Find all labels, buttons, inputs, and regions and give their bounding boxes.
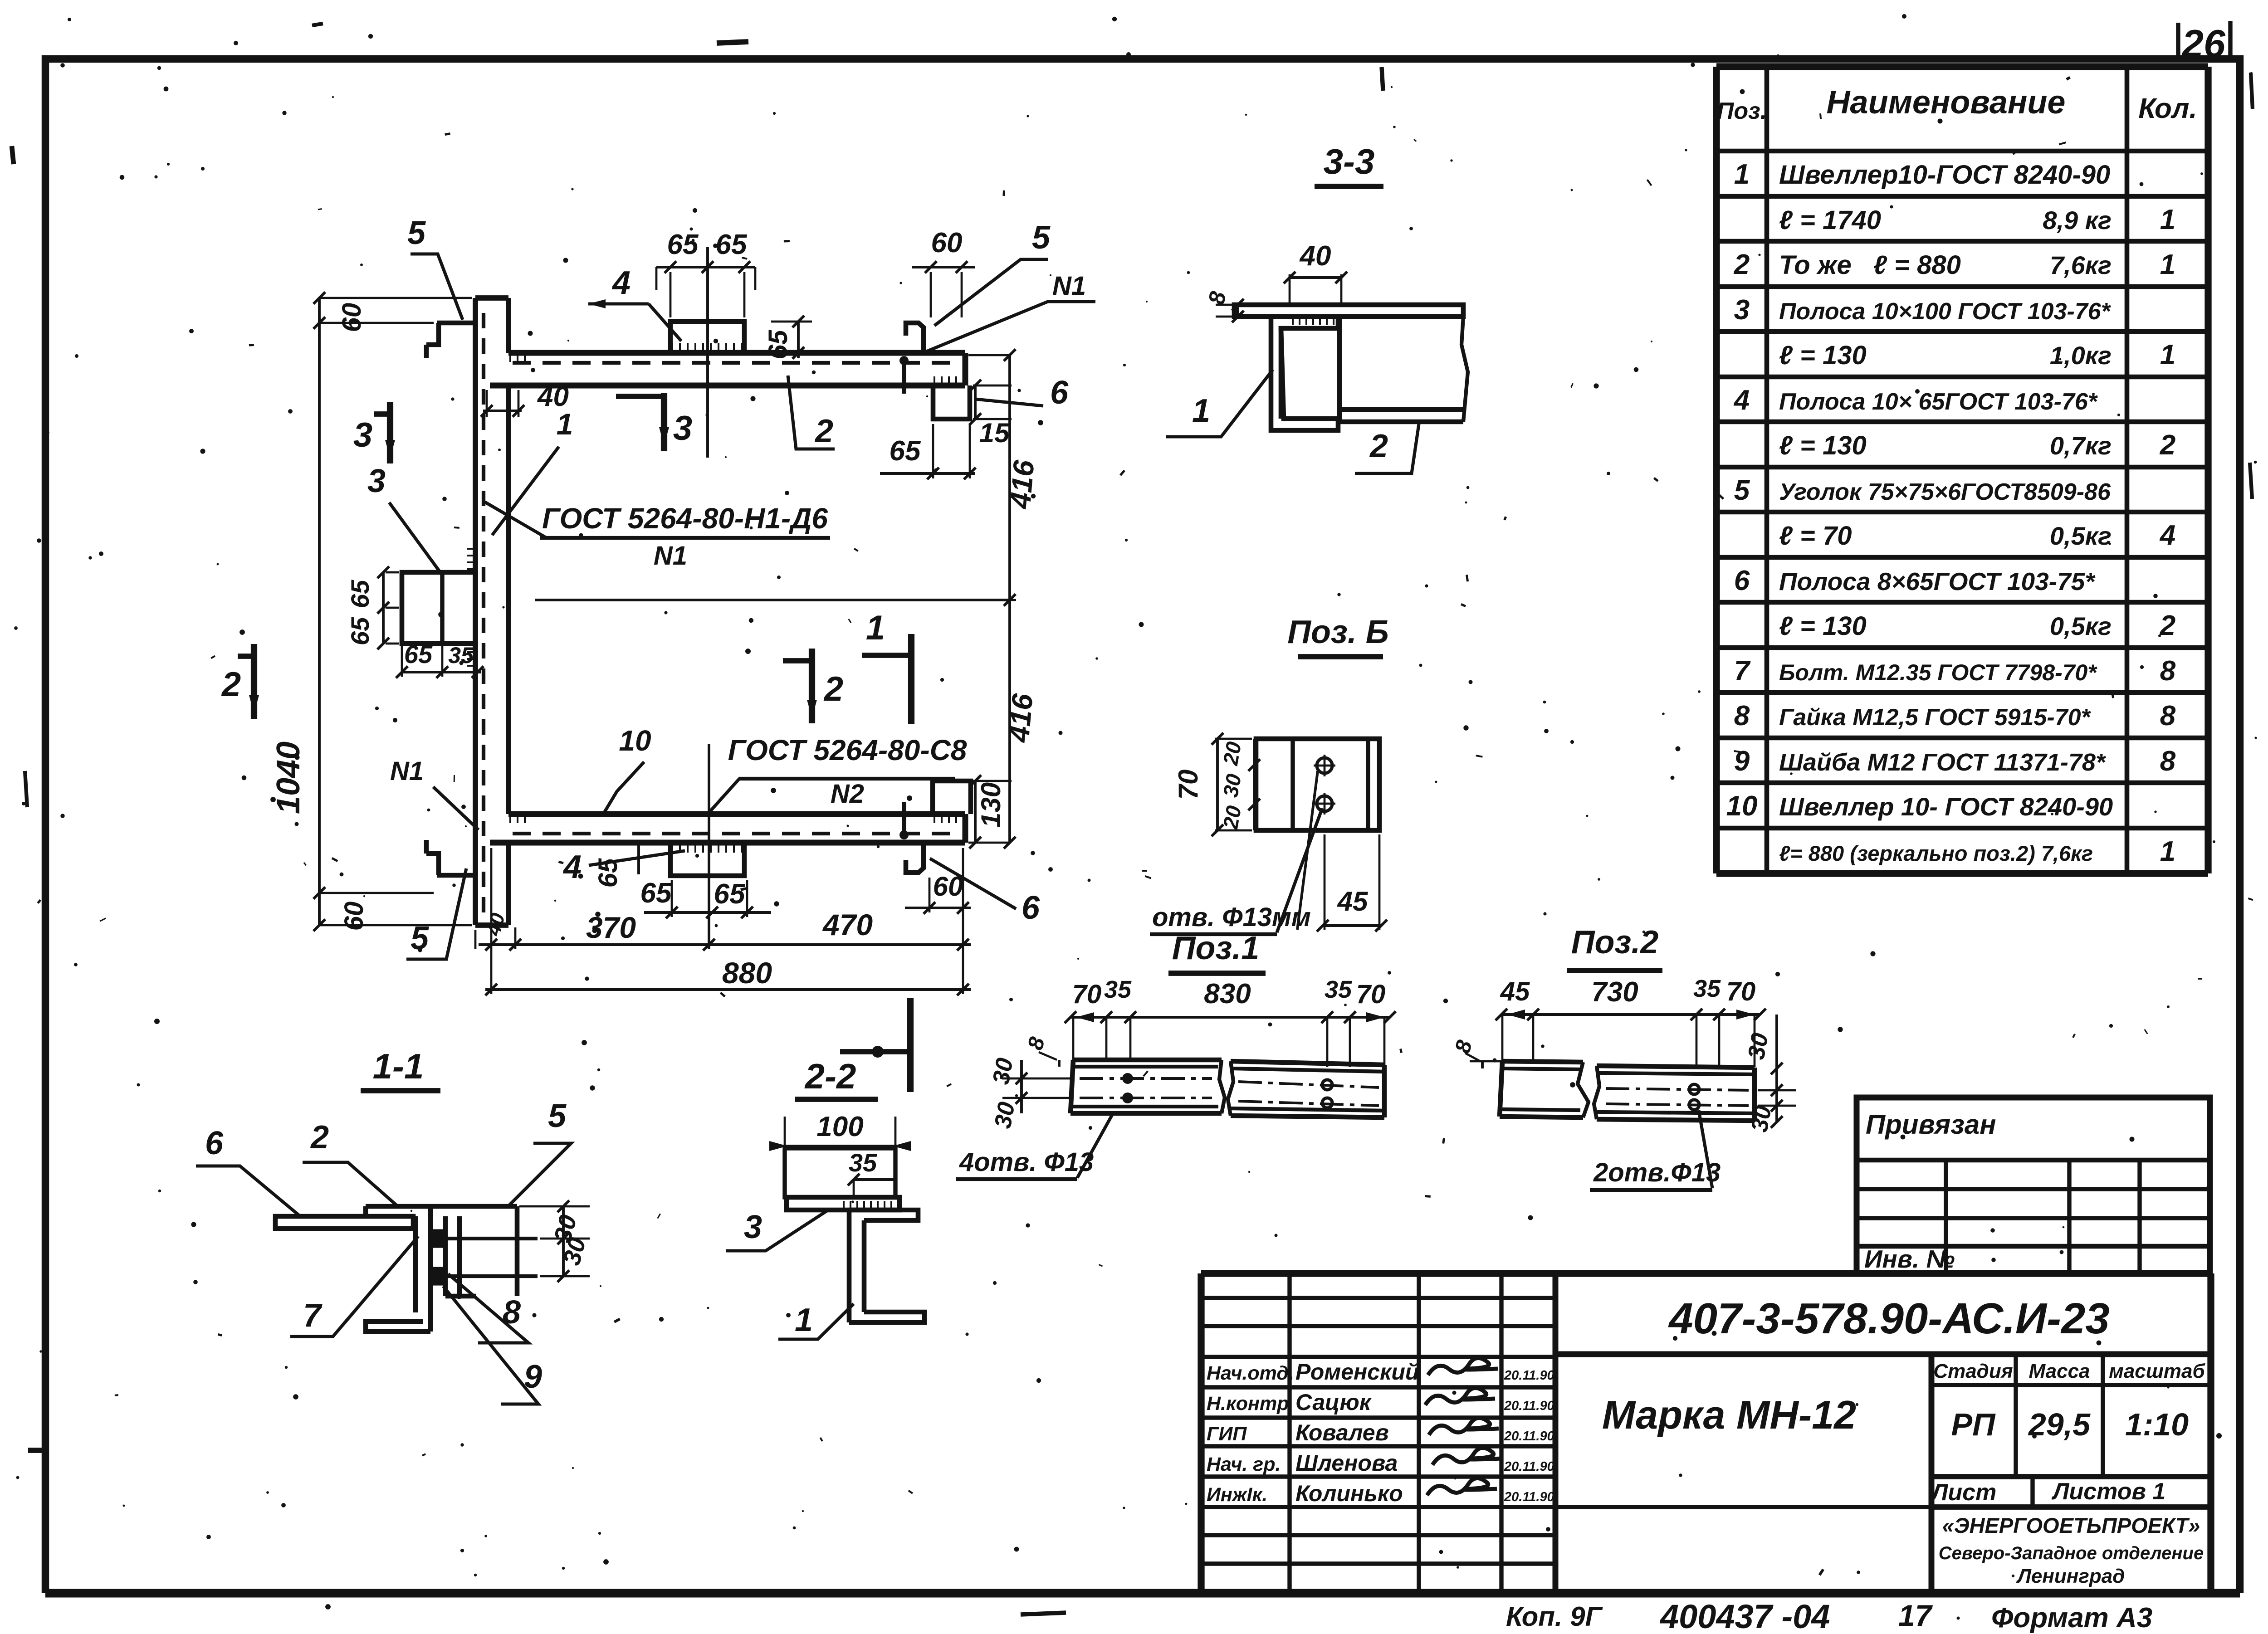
svg-text:8: 8 [1734, 700, 1750, 732]
svg-text:3: 3 [744, 1209, 762, 1245]
svg-text:Швеллер 10- ГОСТ 8240-90: Швеллер 10- ГОСТ 8240-90 [1779, 792, 2113, 821]
svg-text:ℓ = 1740: ℓ = 1740 [1779, 205, 1881, 235]
svg-text:8: 8 [2160, 700, 2176, 732]
svg-text:Северо-Западное отделение: Северо-Западное отделение [1939, 1543, 2204, 1563]
svg-text:Поз.1: Поз.1 [1172, 930, 1260, 966]
svg-text:Гайка М12,5 ГОСТ 5915-70*: Гайка М12,5 ГОСТ 5915-70* [1779, 704, 2092, 731]
svg-text:5: 5 [1734, 475, 1750, 506]
svg-text:0,5кг: 0,5кг [2050, 522, 2112, 550]
svg-text:6: 6 [1022, 890, 1040, 926]
svg-text:20.11.90: 20.11.90 [1504, 1490, 1554, 1504]
svg-text:Наименование: Наименование [1827, 84, 2066, 121]
svg-text:Колинько: Колинько [1295, 1481, 1403, 1506]
svg-text:65: 65 [890, 435, 921, 467]
svg-text:Шленова: Шленова [1295, 1450, 1398, 1476]
svg-text:Кол.: Кол. [2138, 93, 2197, 124]
svg-text:30: 30 [990, 1100, 1020, 1130]
svg-text:N1: N1 [654, 541, 687, 571]
svg-text:45: 45 [1500, 977, 1530, 1006]
svg-text:30: 30 [988, 1056, 1018, 1086]
svg-text:65: 65 [346, 617, 374, 645]
svg-text:65: 65 [346, 580, 374, 608]
svg-text:15: 15 [979, 418, 1010, 448]
svg-text:Масса: Масса [2028, 1360, 2090, 1382]
svg-text:17: 17 [1898, 1599, 1933, 1632]
svg-text:Нач.отд.: Нач.отд. [1207, 1362, 1294, 1384]
svg-text:880: 880 [722, 956, 772, 990]
svg-text:8: 8 [2160, 746, 2176, 777]
svg-text:370: 370 [586, 911, 636, 944]
svg-text:830: 830 [1204, 978, 1251, 1010]
svg-text:60: 60 [339, 902, 369, 931]
svg-text:35: 35 [1104, 976, 1132, 1003]
svg-text:2: 2 [1734, 249, 1750, 280]
svg-text:Поз. Б: Поз. Б [1287, 614, 1389, 650]
svg-text:100: 100 [816, 1111, 863, 1142]
svg-text:70: 70 [1356, 980, 1386, 1009]
svg-text:2: 2 [221, 665, 241, 704]
svg-text:20.11.90: 20.11.90 [1504, 1399, 1554, 1413]
svg-text:ℓ= 880 (зеркально поз.2) 7,6кг: ℓ= 880 (зеркально поз.2) 7,6кг [1779, 841, 2093, 865]
svg-text:Поз.: Поз. [1717, 98, 1767, 124]
svg-text:Стадия: Стадия [1933, 1360, 2013, 1382]
svg-text:8,9 кг: 8,9 кг [2043, 206, 2112, 234]
svg-text:6: 6 [1734, 565, 1750, 596]
svg-text:6: 6 [1050, 375, 1069, 411]
svg-text:Инв. №: Инв. № [1864, 1245, 1955, 1273]
svg-text:65: 65 [640, 878, 672, 909]
svg-text:4: 4 [1733, 385, 1750, 416]
svg-text:30: 30 [1746, 1103, 1777, 1134]
svg-text:То же ℓ = 880: То же ℓ = 880 [1779, 250, 1961, 280]
svg-text:1: 1 [2160, 339, 2175, 371]
svg-text:70: 70 [1072, 980, 1102, 1009]
svg-text:4: 4 [611, 265, 631, 301]
svg-text:70: 70 [1726, 977, 1756, 1006]
svg-text:N1: N1 [1052, 271, 1086, 301]
svg-text:10: 10 [1726, 790, 1758, 822]
svg-text:Формат А3: Формат А3 [1991, 1602, 2152, 1634]
svg-text:Сацюк: Сацюк [1295, 1390, 1372, 1415]
svg-text:1040: 1040 [270, 741, 307, 814]
svg-text:Полоса 10× 65ГОСТ 103-76*: Полоса 10× 65ГОСТ 103-76* [1779, 389, 2098, 415]
svg-text:10: 10 [619, 724, 651, 757]
svg-text:ℓ = 130: ℓ = 130 [1779, 341, 1867, 370]
svg-text:ГОСТ 5264-80-С8: ГОСТ 5264-80-С8 [728, 734, 967, 766]
svg-text:416: 416 [1002, 692, 1039, 744]
svg-text:7,6кг: 7,6кг [2050, 251, 2112, 279]
svg-text:5: 5 [548, 1098, 567, 1134]
svg-text:ГОСТ 5264-80-Н1-Д6: ГОСТ 5264-80-Н1-Д6 [542, 502, 828, 535]
svg-text:400437 -04: 400437 -04 [1659, 1598, 1830, 1634]
svg-text:470: 470 [822, 908, 873, 941]
svg-text:65: 65 [667, 229, 699, 260]
svg-text:730: 730 [1591, 976, 1638, 1008]
svg-text:3-3: 3-3 [1324, 141, 1375, 181]
svg-text:1-1: 1-1 [373, 1046, 424, 1086]
svg-text:РП: РП [1951, 1407, 1996, 1442]
svg-text:ГИП: ГИП [1207, 1423, 1247, 1445]
svg-text:0,5кг: 0,5кг [2050, 612, 2112, 640]
svg-text:60: 60 [337, 303, 367, 332]
svg-text:8: 8 [503, 1294, 521, 1331]
svg-text:N1: N1 [390, 756, 424, 786]
svg-text:Листов 1: Листов 1 [2051, 1478, 2166, 1505]
svg-text:1: 1 [2160, 204, 2175, 235]
svg-text:Нач. гр.: Нач. гр. [1207, 1454, 1281, 1475]
svg-text:1: 1 [866, 609, 885, 647]
svg-text:2-2: 2-2 [804, 1056, 856, 1096]
svg-text:70: 70 [1173, 770, 1203, 800]
svg-text:130: 130 [976, 782, 1006, 828]
svg-text:1: 1 [795, 1302, 813, 1338]
svg-text:3: 3 [367, 463, 386, 499]
svg-text:2отв.Ф13: 2отв.Ф13 [1593, 1158, 1721, 1187]
svg-text:Ковалев: Ковалев [1295, 1420, 1389, 1445]
svg-text:Швеллер10-ГОСТ 8240-90: Швеллер10-ГОСТ 8240-90 [1779, 160, 2110, 190]
svg-text:26: 26 [2181, 22, 2226, 66]
svg-text:2: 2 [310, 1119, 329, 1156]
svg-text:20.11.90: 20.11.90 [1504, 1429, 1554, 1444]
svg-text:Марка МН-12: Марка МН-12 [1602, 1392, 1856, 1437]
svg-text:Полоса 10×100 ГОСТ 103-76*: Полоса 10×100 ГОСТ 103-76* [1779, 298, 2112, 325]
svg-text:масштаб: масштаб [2109, 1360, 2205, 1382]
svg-text:Роменский: Роменский [1295, 1359, 1419, 1385]
svg-text:1: 1 [2160, 249, 2175, 280]
svg-text:1: 1 [1192, 393, 1210, 429]
svg-text:ℓ = 130: ℓ = 130 [1779, 611, 1867, 641]
svg-text:Полоса 8×65ГОСТ 103-75*: Полоса 8×65ГОСТ 103-75* [1779, 567, 2096, 595]
svg-text:3: 3 [673, 409, 692, 448]
svg-text:416: 416 [1003, 458, 1040, 511]
svg-text:0,7кг: 0,7кг [2050, 431, 2112, 460]
svg-text:Ленинград: Ленинград [2016, 1565, 2125, 1587]
svg-text:60: 60 [931, 227, 963, 259]
svg-text:1: 1 [1734, 159, 1750, 190]
svg-text:Уголок 75×75×6ГОСТ8509-86: Уголок 75×75×6ГОСТ8509-86 [1779, 479, 2111, 505]
svg-text:7: 7 [1734, 655, 1751, 687]
svg-text:Привязан: Привязан [1866, 1109, 1996, 1140]
svg-text:8: 8 [2160, 655, 2176, 687]
svg-text:Поз.2: Поз.2 [1571, 924, 1659, 961]
svg-text:20: 20 [1218, 740, 1246, 767]
svg-text:30: 30 [1218, 772, 1246, 799]
svg-text:Лист: Лист [1930, 1479, 1997, 1506]
svg-text:29,5: 29,5 [2028, 1407, 2091, 1442]
svg-text:407-3-578.90-АС.И-23: 407-3-578.90-АС.И-23 [1668, 1294, 2109, 1343]
svg-text:Болт. М12.35 ГОСТ 7798-70*: Болт. М12.35 ГОСТ 7798-70* [1779, 660, 2097, 685]
svg-text:2: 2 [1369, 428, 1388, 464]
svg-text:35: 35 [1693, 975, 1721, 1002]
svg-text:65: 65 [404, 640, 433, 668]
svg-text:1:10: 1:10 [2125, 1407, 2189, 1442]
svg-text:ИнжIк.: ИнжIк. [1207, 1484, 1267, 1506]
svg-text:2: 2 [823, 670, 843, 708]
svg-text:2: 2 [814, 413, 833, 449]
svg-text:40: 40 [1299, 240, 1331, 272]
svg-text:Коп. 9Г: Коп. 9Г [1506, 1601, 1603, 1632]
svg-text:65: 65 [763, 330, 793, 359]
svg-text:1,0кг: 1,0кг [2050, 341, 2112, 370]
svg-text:7: 7 [303, 1297, 323, 1334]
svg-text:4: 4 [2159, 520, 2175, 551]
svg-text:20.11.90: 20.11.90 [1504, 1459, 1554, 1474]
svg-text:35: 35 [849, 1148, 877, 1177]
svg-text:5: 5 [407, 215, 426, 251]
svg-text:5: 5 [1032, 219, 1051, 256]
svg-text:4: 4 [562, 849, 582, 885]
svg-text:N2: N2 [831, 779, 864, 809]
svg-text:65: 65 [716, 229, 748, 260]
svg-text:3: 3 [1734, 294, 1750, 326]
svg-text:20.11.90: 20.11.90 [1504, 1368, 1554, 1383]
svg-text:35: 35 [1325, 976, 1352, 1003]
svg-text:30: 30 [1743, 1031, 1774, 1061]
svg-text:9: 9 [1734, 746, 1750, 777]
svg-text:2: 2 [2160, 429, 2175, 461]
svg-text:45: 45 [1337, 886, 1369, 917]
svg-text:Н.контр: Н.контр [1207, 1393, 1289, 1415]
svg-text:6: 6 [205, 1125, 224, 1161]
svg-text:4отв. Ф13: 4отв. Ф13 [959, 1147, 1094, 1177]
svg-text:3: 3 [353, 416, 372, 454]
svg-text:20: 20 [1218, 804, 1246, 831]
svg-text:ℓ = 130: ℓ = 130 [1779, 431, 1867, 460]
svg-text:1: 1 [2160, 836, 2175, 867]
svg-text:65: 65 [714, 878, 746, 910]
svg-text:1: 1 [557, 407, 573, 441]
svg-text:2: 2 [2160, 610, 2175, 641]
svg-text:ℓ = 70: ℓ = 70 [1779, 521, 1852, 551]
svg-text:Шайба М12 ГОСТ 11371-78*: Шайба М12 ГОСТ 11371-78* [1779, 749, 2107, 776]
svg-text:«ЭНЕРГООЕТЬПРОЕКТ»: «ЭНЕРГООЕТЬПРОЕКТ» [1942, 1513, 2200, 1537]
